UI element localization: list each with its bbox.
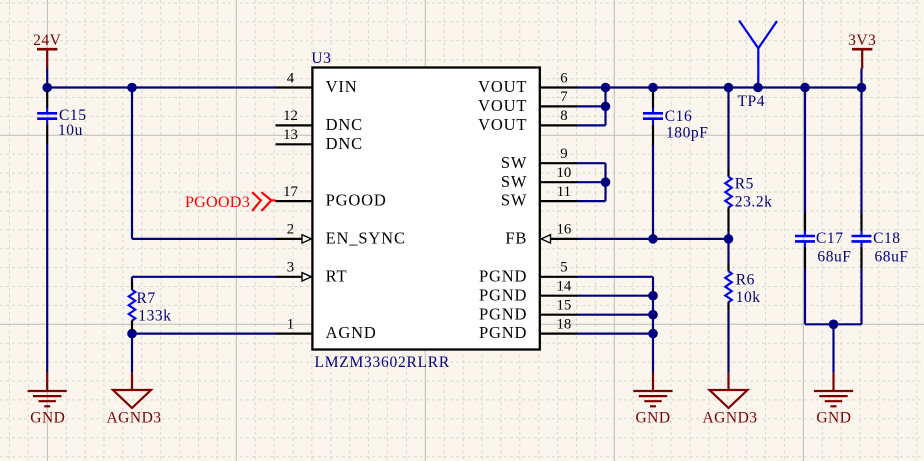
pin 2 EN_SYNC	[276, 222, 406, 248]
svg-text:133k: 133k	[138, 308, 171, 325]
junction C16 top	[648, 83, 658, 93]
svg-text:GND: GND	[30, 410, 65, 427]
pin 4 VIN	[276, 70, 358, 96]
svg-text:SW: SW	[501, 191, 527, 210]
svg-text:4: 4	[287, 70, 295, 86]
svg-text:R6: R6	[736, 272, 755, 289]
wire pin7	[578, 105, 606, 107]
svg-text:LMZM33602RLRR: LMZM33602RLRR	[315, 354, 450, 371]
power port 3V3	[848, 32, 876, 69]
svg-text:R7: R7	[137, 290, 156, 307]
svg-text:10: 10	[557, 165, 572, 181]
test point TP4 antenna	[738, 21, 778, 111]
pin 10 SW	[501, 165, 578, 191]
svg-text:68uF: 68uF	[875, 249, 909, 266]
svg-text:C18: C18	[873, 230, 901, 247]
svg-text:SW: SW	[501, 172, 527, 191]
wire EN_SYNC branch	[132, 88, 276, 239]
svg-text:PGND: PGND	[479, 285, 527, 304]
svg-text:6: 6	[560, 70, 567, 86]
junction FB/R5/R6	[724, 234, 734, 244]
wire to AGND3 left	[131, 334, 133, 373]
wire FB to R6	[727, 239, 729, 263]
svg-text:10k: 10k	[736, 289, 761, 306]
svg-text:GND: GND	[816, 410, 851, 427]
svg-text:24V: 24V	[33, 32, 62, 49]
wire VOUT rail	[578, 86, 862, 88]
junction R5 top	[724, 83, 734, 93]
svg-text:VOUT: VOUT	[478, 77, 527, 96]
svg-text:17: 17	[283, 184, 298, 200]
svg-text:FB: FB	[505, 229, 527, 248]
svg-text:8: 8	[560, 108, 567, 124]
junction PGND 15	[648, 310, 658, 320]
junction PGND 14	[648, 291, 658, 301]
svg-text:PGOOD: PGOOD	[326, 191, 387, 210]
resistor R5 23.2k	[725, 169, 772, 232]
svg-text:PGND: PGND	[479, 266, 527, 285]
svg-text:VOUT: VOUT	[478, 115, 527, 134]
pin 8 VOUT	[478, 108, 578, 134]
svg-text:10u: 10u	[58, 122, 83, 139]
svg-text:VIN: VIN	[326, 77, 358, 96]
ground AGND3 left	[106, 372, 161, 426]
svg-text:3V3: 3V3	[848, 32, 876, 49]
junction bottom tie	[829, 320, 839, 330]
wire FB net	[578, 238, 729, 240]
svg-text:18: 18	[557, 316, 572, 332]
svg-text:DNC: DNC	[326, 134, 363, 153]
pin 15 PGND	[479, 298, 578, 324]
capacitor C15 10u	[37, 92, 86, 145]
svg-text:14: 14	[557, 279, 572, 295]
junction TP4	[753, 83, 763, 93]
junction R7/AGND	[127, 329, 137, 339]
wire 24V stem	[46, 69, 48, 88]
svg-text:RT: RT	[326, 266, 348, 285]
wire 24V rail to pin 4	[47, 86, 275, 88]
svg-text:2: 2	[287, 222, 294, 238]
svg-text:15: 15	[557, 298, 572, 314]
svg-text:68uF: 68uF	[817, 249, 851, 266]
capacitor C17 68uF	[795, 88, 851, 325]
junction C17 top	[800, 83, 810, 93]
wire R7 to AGND pin 1	[132, 330, 276, 334]
pin 18 PGND	[479, 316, 578, 342]
pin 17 PGOOD	[276, 184, 387, 210]
svg-text:C16: C16	[665, 108, 693, 125]
wire RT	[132, 277, 276, 282]
svg-text:GND: GND	[635, 410, 670, 427]
svg-text:13: 13	[283, 127, 298, 143]
junction pin7 riser	[601, 102, 611, 112]
junction FB/C16	[648, 234, 658, 244]
junction at 24V/C15	[42, 83, 52, 93]
wire R6 to AGND3	[727, 310, 729, 372]
svg-text:180pF: 180pF	[666, 125, 708, 142]
junction PGND 18	[648, 329, 658, 339]
wire C16 to FB	[652, 145, 654, 239]
resistor R7 133k	[129, 282, 172, 330]
junction VOUT rail riser	[601, 83, 611, 93]
svg-text:12: 12	[283, 108, 298, 124]
svg-text:16: 16	[557, 222, 572, 238]
svg-text:23.2k: 23.2k	[735, 194, 773, 211]
node PGOOD3	[185, 192, 276, 211]
svg-text:1: 1	[287, 316, 294, 332]
junction at EN_SYNC branch	[127, 83, 137, 93]
svg-text:DNC: DNC	[326, 115, 363, 134]
wire rail to R5	[727, 88, 729, 169]
svg-text:TP4: TP4	[738, 93, 766, 110]
svg-text:9: 9	[560, 146, 567, 162]
pin 7 VOUT	[478, 89, 578, 115]
svg-text:VOUT: VOUT	[478, 96, 527, 115]
pin 1 AGND	[276, 316, 377, 342]
ground AGND3 right	[702, 372, 757, 426]
svg-text:SW: SW	[501, 153, 527, 172]
svg-text:7: 7	[560, 89, 567, 105]
svg-text:AGND3: AGND3	[106, 410, 161, 427]
pin 16 FB	[505, 222, 578, 248]
svg-text:AGND: AGND	[326, 323, 377, 342]
capacitor C16 180pF	[643, 92, 708, 146]
junction SW	[601, 177, 611, 187]
wire pin8 riser	[578, 88, 606, 126]
svg-text:EN_SYNC: EN_SYNC	[326, 229, 406, 248]
svg-text:PGOOD3: PGOOD3	[185, 193, 250, 211]
pin 12 DNC	[276, 108, 363, 134]
wire SW tie	[578, 163, 606, 201]
pin 3 RT	[276, 260, 348, 286]
resistor R6 10k	[725, 263, 760, 310]
capacitor C18 68uF	[852, 88, 909, 325]
svg-text:U3: U3	[311, 50, 331, 67]
svg-text:R5: R5	[735, 176, 754, 193]
pin 9 SW	[501, 146, 578, 172]
wire 3V3 stem	[860, 69, 862, 88]
svg-text:PGND: PGND	[479, 304, 527, 323]
ground GND left	[28, 372, 67, 426]
pin 11 SW	[501, 184, 578, 210]
pin 13 DNC	[276, 127, 363, 153]
svg-text:3: 3	[287, 260, 294, 276]
ground GND middle	[633, 372, 672, 426]
op-amp-style IC U3 body LMZM33602RLRR	[311, 50, 539, 371]
ground GND right	[814, 372, 853, 426]
junction C18/3V3 top	[857, 83, 867, 93]
wire C15 to GND	[46, 144, 48, 372]
power port 24V	[33, 32, 62, 69]
svg-text:AGND3: AGND3	[702, 410, 757, 427]
wire R5 to FB	[727, 232, 729, 239]
pin 5 PGND	[479, 260, 578, 286]
svg-text:C17: C17	[816, 230, 844, 247]
pin 14 PGND	[479, 279, 578, 305]
wire PGND net	[578, 277, 653, 373]
pin 6 VOUT	[478, 70, 578, 96]
svg-text:11: 11	[557, 184, 571, 200]
svg-text:5: 5	[560, 260, 567, 276]
wire C17/C18 bottom tie	[805, 324, 862, 372]
svg-text:PGND: PGND	[479, 323, 527, 342]
